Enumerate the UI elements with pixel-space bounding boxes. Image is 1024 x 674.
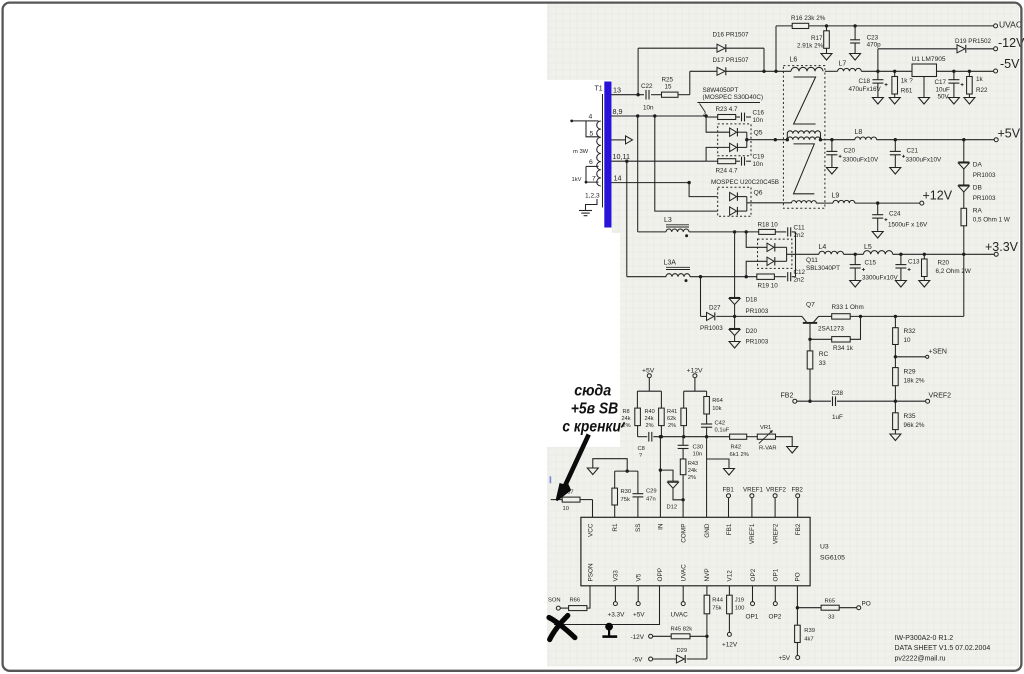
svg-text:D27: D27 — [709, 305, 721, 312]
ground below R17 — [821, 54, 832, 61]
ground below C20 — [826, 168, 837, 175]
wire Q11 upper out — [775, 246, 787, 248]
svg-text:C21: C21 — [907, 148, 919, 155]
wire D12 bottom to COMP column — [673, 488, 683, 500]
resistor R20 — [923, 254, 925, 259]
dotted box transformer secondary — [783, 66, 825, 209]
svg-text:C24: C24 — [889, 211, 901, 218]
wire U1 ground pin — [923, 77, 925, 98]
svg-text:Q5: Q5 — [754, 130, 763, 137]
wire R65 to PO terminal — [839, 607, 857, 609]
white patch over transformer area — [547, 80, 612, 233]
svg-text:+SEN: +SEN — [929, 349, 947, 356]
wire +5V rail — [821, 139, 855, 141]
svg-text:R16 23k 2%: R16 23k 2% — [791, 15, 826, 22]
wire bracket to left ground — [593, 459, 627, 471]
svg-text:DATA SHEET V1.5 07.02.2004: DATA SHEET V1.5 07.02.2004 — [895, 645, 991, 652]
svg-text:R23 4.7: R23 4.7 — [716, 106, 739, 113]
capacitor C22 — [645, 90, 647, 100]
resistor R40 — [659, 408, 665, 426]
svg-text:VR1: VR1 — [760, 425, 771, 431]
wire FB2 stub — [797, 498, 799, 518]
svg-text:3300uFx10V: 3300uFx10V — [843, 157, 880, 164]
wire pin4 stub — [586, 120, 599, 122]
svg-text:2%: 2% — [646, 423, 654, 429]
svg-text:C18: C18 — [859, 78, 871, 85]
svg-text:R24 4.7: R24 4.7 — [716, 168, 739, 175]
svg-text:+5V: +5V — [779, 655, 791, 662]
svg-text:-5V: -5V — [1000, 57, 1020, 71]
junction dot R22 — [968, 70, 971, 73]
svg-text:FB2: FB2 — [795, 523, 802, 535]
resistor R65 — [821, 605, 839, 610]
wire GND column — [706, 437, 708, 518]
wire Q5 upper diode out — [737, 131, 746, 133]
wire C29 drop — [637, 471, 639, 494]
resistor R16 — [792, 23, 809, 28]
white strip at bottom of scan — [547, 667, 1020, 671]
svg-text:R35: R35 — [904, 413, 916, 420]
svg-text:D19 PR1502: D19 PR1502 — [955, 38, 992, 45]
resistor R33 — [832, 314, 851, 319]
svg-text:4k7: 4k7 — [804, 637, 813, 643]
junction dot IN on rail — [659, 435, 662, 438]
terminal OP2 pin — [751, 602, 755, 606]
wire D16 row — [638, 47, 717, 49]
junction dot C23 top — [853, 24, 856, 27]
secondary winding +5V lower row — [787, 137, 820, 140]
wire L3A row left — [627, 276, 666, 278]
junction dot Q7 emitter node — [808, 338, 811, 341]
svg-text:PR1003: PR1003 — [746, 308, 769, 315]
diode D18 — [729, 297, 740, 299]
ground below C21 — [890, 168, 901, 175]
resistor R45 — [671, 634, 690, 639]
svg-text:-12V: -12V — [998, 36, 1024, 50]
wire Q5 lower diode input — [706, 147, 730, 161]
svg-text:3300uFx10V: 3300uFx10V — [862, 275, 899, 282]
diode Q5 upper — [730, 128, 737, 136]
wire Q6 upper out — [737, 196, 746, 198]
wire R8 drop — [636, 391, 638, 408]
wire pin5 loop — [586, 121, 599, 137]
svg-text:C30: C30 — [693, 445, 704, 451]
wire pin 10,11 row — [612, 160, 707, 162]
wire R18 to C11 — [775, 231, 786, 233]
resistor R35 — [894, 401, 896, 413]
svg-text:10n: 10n — [693, 452, 703, 458]
svg-text:R61: R61 — [901, 88, 913, 95]
diode DA — [958, 161, 969, 163]
wire D17 left drop — [689, 71, 691, 94]
wire -12V row — [878, 48, 957, 50]
svg-text:OP1: OP1 — [773, 568, 780, 581]
ground below C24 — [872, 232, 883, 239]
svg-text:RA: RA — [973, 208, 983, 215]
capacitor C42 — [701, 423, 712, 425]
wire Q7 to R33 — [819, 315, 832, 317]
svg-text:C29: C29 — [646, 489, 657, 495]
svg-text:SG6105: SG6105 — [820, 555, 845, 562]
terminal V33 — [613, 602, 617, 606]
junction dot +3.3V sense — [962, 253, 965, 256]
resistor R41 — [681, 408, 687, 426]
svg-text:2%: 2% — [668, 423, 676, 429]
inductor L6 winding — [791, 67, 823, 71]
svg-text:18k 2%: 18k 2% — [904, 378, 925, 385]
wire C30 to R43 — [682, 449, 684, 459]
svg-text:24k: 24k — [688, 468, 697, 474]
wire drop to Q6 lower diode — [655, 116, 718, 211]
wire R40 to rail — [660, 426, 662, 437]
terminal FB2 — [793, 399, 797, 403]
capacitor C23 — [850, 39, 860, 41]
svg-text:R40: R40 — [645, 409, 655, 415]
resistor J19 — [727, 595, 733, 614]
junction dot Q11 lower input — [745, 275, 748, 278]
junction dot +5V to DA column — [962, 138, 965, 141]
wire Q5 upper diode input — [706, 116, 730, 132]
wire R29 to FB2 line — [894, 386, 896, 402]
svg-text:3300uFx10V: 3300uFx10V — [906, 157, 943, 164]
svg-text:10,11: 10,11 — [613, 152, 630, 161]
junction dot C21 — [894, 138, 897, 141]
svg-text:R45 82k: R45 82k — [671, 627, 693, 633]
svg-text:+3.3V: +3.3V — [608, 612, 626, 619]
svg-text:L6: L6 — [790, 57, 798, 64]
wire GND hook to ground — [707, 459, 729, 469]
svg-text:2%: 2% — [688, 475, 696, 481]
wire D20 vertical — [734, 316, 736, 328]
svg-text:DA: DA — [973, 162, 983, 169]
wire RA to +3.3V rail — [963, 226, 965, 255]
core Z shape lower — [794, 144, 815, 194]
junction dot R61 — [893, 70, 896, 73]
phase dot L3 — [685, 234, 688, 237]
svg-text:96k 2%: 96k 2% — [904, 422, 925, 429]
svg-text:S8W4050PT: S8W4050PT — [703, 87, 739, 94]
wire V5 stub — [637, 586, 639, 602]
svg-text:-12V: -12V — [631, 634, 645, 641]
svg-text:R41: R41 — [667, 409, 677, 415]
secondary winding end caps — [786, 134, 788, 140]
svg-text:+12V: +12V — [923, 189, 953, 203]
underline of MOSPEC label — [697, 102, 760, 104]
wire R19 to C12 — [774, 276, 786, 278]
svg-text:J19: J19 — [735, 598, 744, 604]
hand arrow head — [557, 483, 570, 500]
junction dot NVP node — [705, 635, 708, 638]
ground below R20 — [919, 281, 930, 288]
svg-text:PR1003: PR1003 — [973, 195, 996, 202]
wire DA column upper — [963, 140, 965, 162]
wire R33 to sense column — [850, 315, 964, 317]
wire C12 up to Q11 out — [792, 276, 796, 278]
capacitor C17 — [953, 71, 955, 79]
svg-text:33: 33 — [819, 360, 827, 367]
wire FB1 stub — [728, 498, 730, 518]
inductor L5 — [863, 251, 892, 255]
arrow mid-winding tap — [612, 139, 626, 141]
wire PSON to R66 — [587, 586, 590, 608]
svg-text:C42: C42 — [715, 421, 726, 427]
capacitor C28 — [832, 396, 834, 406]
svg-text:IN: IN — [658, 523, 665, 530]
wire VREF1 stub — [751, 498, 753, 518]
svg-text:UVAC: UVAC — [681, 564, 688, 582]
wire V12 to J19 — [728, 586, 730, 595]
wire D27 row — [701, 315, 707, 317]
svg-text:OP2: OP2 — [750, 568, 757, 581]
svg-text:D16 PR1507: D16 PR1507 — [713, 32, 750, 39]
diode Q11 upper — [767, 243, 774, 251]
svg-text:FB2: FB2 — [781, 393, 794, 400]
svg-text:D20: D20 — [746, 328, 758, 335]
svg-text:U3: U3 — [820, 544, 829, 551]
svg-text:C15: C15 — [865, 260, 877, 267]
wire L3A row right — [690, 276, 757, 278]
junction dot RC on FB2 line — [808, 400, 811, 403]
junction dot R40 rail — [660, 435, 663, 438]
ground below C15 — [850, 281, 861, 288]
wire D27 branch vertical — [700, 277, 702, 317]
svg-text:R22: R22 — [976, 87, 988, 94]
wire Q11 lower out — [775, 260, 787, 262]
terminal VREF2 top — [773, 494, 777, 498]
phase dot L3A — [685, 279, 688, 282]
resistor R8 — [635, 408, 641, 426]
svg-text:R17: R17 — [811, 35, 823, 42]
svg-text:D12: D12 — [667, 505, 678, 511]
terminal +SEN — [926, 355, 929, 358]
svg-text:6k1 2%: 6k1 2% — [730, 452, 749, 458]
svg-text:FB2: FB2 — [792, 487, 804, 494]
wire R39 to +5V terminal — [796, 643, 798, 656]
wire IN column — [659, 437, 661, 518]
svg-text:470uFx16V: 470uFx16V — [849, 86, 882, 93]
capacitor C20 electrolytic — [831, 140, 833, 152]
svg-text:R-VAR: R-VAR — [759, 446, 777, 452]
wire +12V to bracket — [694, 378, 696, 392]
wire V33 stub — [614, 586, 616, 602]
capacitor C15 electrolytic — [854, 254, 856, 264]
junction dot 8,9 drop — [636, 114, 639, 117]
wire Q5 output junction — [746, 132, 748, 147]
svg-text:+12V: +12V — [687, 368, 704, 375]
junction dot C13 — [899, 253, 902, 256]
junction dot R32 top — [894, 315, 897, 318]
svg-text:10k: 10k — [712, 406, 721, 412]
junction dot bracket — [626, 469, 629, 472]
wire R41 drop — [683, 391, 685, 408]
diode D17 — [717, 67, 725, 75]
svg-text:Q6: Q6 — [754, 190, 763, 197]
svg-text:DB: DB — [973, 185, 983, 192]
transistor Q7 2SA1273 — [802, 316, 807, 322]
wire -5V row left of U1 — [825, 70, 838, 72]
wire divider bracket +5V — [637, 390, 661, 392]
wire R41 to rail — [683, 426, 685, 437]
wire Q6 lower out — [737, 210, 746, 212]
svg-text:L4: L4 — [819, 244, 827, 251]
diode Q6 upper — [730, 192, 737, 200]
wire D18 vertical — [734, 232, 736, 298]
inductor L3A — [666, 274, 690, 277]
wire UVAC feed vertical — [775, 26, 777, 71]
wire C23 vertical — [854, 26, 856, 40]
svg-text:PO: PO — [862, 601, 871, 608]
svg-text:Q7: Q7 — [806, 302, 815, 309]
svg-text:R65: R65 — [825, 599, 836, 605]
diode D19 — [957, 45, 965, 53]
svg-text:C11: C11 — [794, 225, 806, 232]
resistor RA — [961, 208, 967, 226]
junction dot C17 — [952, 70, 955, 73]
svg-text:C17: C17 — [935, 79, 947, 86]
junction dot Q11 upper input — [745, 230, 748, 233]
svg-text:75k: 75k — [712, 606, 721, 612]
hand arrow shaft — [564, 435, 589, 490]
svg-text:UVAC: UVAC — [671, 612, 689, 619]
ground below U1 — [919, 98, 930, 105]
wire control rail — [638, 436, 648, 438]
variable resistor VR1 — [757, 434, 775, 439]
white strip at right of scan — [1019, 4, 1023, 668]
ground below C17 — [948, 98, 959, 105]
wire Q7 emitter row to R34 — [810, 338, 832, 340]
wire L3 row left — [638, 231, 666, 233]
diode DB — [958, 184, 969, 186]
wire FB2 line — [797, 400, 831, 402]
wire Q11 upper input — [746, 232, 767, 247]
terminal FB1 top — [727, 494, 731, 498]
wire pin 8,9 row — [612, 115, 707, 117]
ground below C18 — [872, 98, 883, 105]
svg-text:1uF: 1uF — [832, 414, 843, 421]
capacitor C12 — [787, 272, 789, 281]
svg-text:SBL3040PT: SBL3040PT — [806, 265, 840, 272]
scan gray background of schematic area — [547, 4, 1020, 668]
junction dot on Q5 out wire — [774, 138, 777, 141]
wire R32 to SEN node — [894, 345, 896, 368]
svg-text:15: 15 — [665, 84, 673, 91]
wire COMP column top — [682, 437, 684, 446]
wire pin 14 row — [612, 182, 690, 184]
svg-text:-5V: -5V — [633, 657, 644, 664]
svg-text:1k ?: 1k ? — [901, 78, 913, 85]
svg-text:сюда: сюда — [574, 383, 611, 400]
wire drop pin14 to Q6 upper diode — [689, 183, 718, 197]
svg-text:6: 6 — [589, 159, 593, 166]
diode D16 — [717, 44, 725, 52]
dotted box Q11 — [758, 239, 792, 268]
wire VREF2 stub — [774, 498, 776, 518]
svg-text:R25: R25 — [662, 77, 674, 84]
wire Q6 output junction — [746, 197, 748, 212]
ground of primary 1,2,3 — [579, 210, 592, 212]
terminal +12V bottom — [727, 632, 731, 636]
svg-text:pv2222@mail.ru: pv2222@mail.ru — [895, 656, 946, 663]
svg-text:PSON: PSON — [587, 563, 594, 581]
white patch middle-left blank area — [547, 233, 620, 447]
terminal +5V bottom — [796, 656, 800, 660]
svg-text:100: 100 — [735, 606, 745, 612]
dot pin7 — [585, 181, 588, 184]
wire R30 drop — [614, 471, 616, 488]
svg-text:62k: 62k — [667, 416, 676, 422]
capacitor C16 — [741, 113, 743, 122]
terminal PO — [857, 606, 861, 610]
resistor R24 — [718, 159, 736, 164]
terminal UVAC bottom — [681, 602, 685, 606]
svg-text:2.91k 2%: 2.91k 2% — [797, 43, 824, 50]
inductor L4 — [819, 251, 844, 254]
svg-text:SON: SON — [548, 598, 561, 604]
wire VR1 to ground — [776, 437, 793, 447]
svg-text:VREF1: VREF1 — [749, 523, 756, 544]
ground below R61 — [889, 98, 900, 105]
wire L3 row right — [689, 231, 759, 233]
capacitor C11 — [787, 227, 789, 236]
svg-text:R1: R1 — [612, 523, 619, 532]
wire drop 10,11 to L3A row — [626, 161, 628, 277]
junction dot D27 branch — [699, 275, 702, 278]
svg-text:VREF1: VREF1 — [743, 487, 764, 494]
svg-text:R30: R30 — [621, 489, 632, 495]
svg-text:R20: R20 — [938, 260, 950, 267]
junction dot R17 top — [825, 24, 828, 27]
junction dot UVAC feed on -5V row — [774, 70, 777, 73]
junction dot C24 — [876, 201, 879, 204]
hand dot marker on OPP wire — [605, 623, 613, 631]
wire R44 to -12V junction — [706, 614, 708, 659]
wire 1,2,3 to ground — [586, 199, 598, 211]
ground after VR1 — [787, 447, 798, 454]
svg-text:10n: 10n — [753, 117, 764, 124]
svg-text:+5V: +5V — [998, 127, 1021, 141]
wire Q5 output to winding — [747, 139, 788, 141]
wire +12V rail — [816, 202, 833, 204]
diode Q11 lower — [767, 257, 774, 265]
wire PO to R65 — [797, 607, 821, 609]
inductor L3 — [666, 229, 689, 232]
svg-text:C8: C8 — [638, 446, 645, 452]
wire R34 up-link — [850, 316, 860, 339]
wire R8 to rail — [637, 426, 639, 437]
note apostrophe tick — [621, 422, 624, 427]
junction dot PO node — [796, 606, 799, 609]
wire pin6 stub — [586, 165, 599, 167]
junction dot Q5 output — [745, 138, 748, 141]
svg-text:V12: V12 — [727, 570, 734, 582]
junction dot winding right end — [819, 138, 822, 141]
svg-text:R19 10: R19 10 — [758, 283, 779, 290]
wire RC to FB2 line — [809, 369, 811, 401]
resistor R44 — [704, 595, 710, 614]
terminal VREF2 right — [926, 399, 930, 403]
ground below C13 — [895, 281, 906, 288]
terminal -5V — [994, 69, 998, 73]
resistor R39 — [795, 625, 801, 642]
svg-text:10n: 10n — [643, 105, 654, 112]
svg-text:7: 7 — [592, 176, 596, 183]
wire R64 drop — [706, 391, 708, 396]
svg-text:L3A: L3A — [664, 260, 677, 267]
wire R64 to C42 — [706, 414, 708, 424]
junction dot winding left end — [786, 138, 789, 141]
svg-text:10n: 10n — [753, 161, 764, 168]
hand X cross stroke 2 — [550, 616, 568, 640]
